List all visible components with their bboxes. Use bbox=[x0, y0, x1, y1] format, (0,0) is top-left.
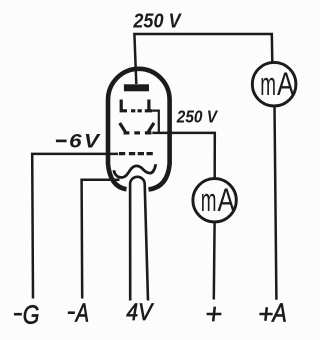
svg-text:A: A bbox=[277, 67, 295, 102]
grid g1 control (plain dashes) bbox=[119, 152, 153, 155]
wire: screen lead to meter mA2 bbox=[152, 133, 215, 179]
svg-text:m: m bbox=[201, 182, 217, 219]
label mA (meter 2) bbox=[201, 182, 235, 219]
label mA (meter 1) bbox=[260, 66, 294, 103]
meter mA2 (screen current) bbox=[193, 179, 236, 222]
svg-text:A: A bbox=[218, 184, 236, 219]
label + bbox=[207, 307, 222, 322]
svg-text:4V: 4V bbox=[126, 297, 153, 325]
svg-text:250 V: 250 V bbox=[132, 11, 182, 33]
wire: cathode lead to -A terminal bbox=[82, 180, 120, 299]
wire: -6V grid bias wire to -G terminal bbox=[32, 154, 118, 299]
label +A bbox=[259, 307, 272, 321]
svg-text:250 V: 250 V bbox=[176, 107, 219, 126]
grid g2 screen (dashed with slanted ends) bbox=[120, 123, 154, 133]
cathode bbox=[114, 164, 156, 177]
svg-text:A: A bbox=[271, 299, 287, 327]
heater filament loop and 4V leads bbox=[130, 177, 148, 301]
svg-text:6V: 6V bbox=[69, 131, 101, 152]
label -A bbox=[68, 311, 75, 314]
anode (plate) bar bbox=[124, 84, 149, 91]
meter mA1 (anode current) bbox=[252, 62, 296, 106]
svg-text:A: A bbox=[74, 298, 89, 327]
wire: g3 lead down to screen lead bbox=[152, 111, 159, 133]
wire: meter mA1 to +A terminal bbox=[275, 106, 277, 300]
svg-text:G: G bbox=[23, 301, 40, 329]
tube V1 envelope bbox=[108, 69, 170, 190]
label -6V bbox=[56, 140, 67, 143]
grid g3 (dashed with corner brackets) bbox=[120, 100, 153, 111]
label -G bbox=[14, 313, 22, 316]
svg-text:m: m bbox=[260, 66, 276, 103]
wire: meter mA2 to + terminal bbox=[213, 222, 216, 300]
wire: top 250V rail from anode to meter mA1 bbox=[134, 34, 272, 84]
